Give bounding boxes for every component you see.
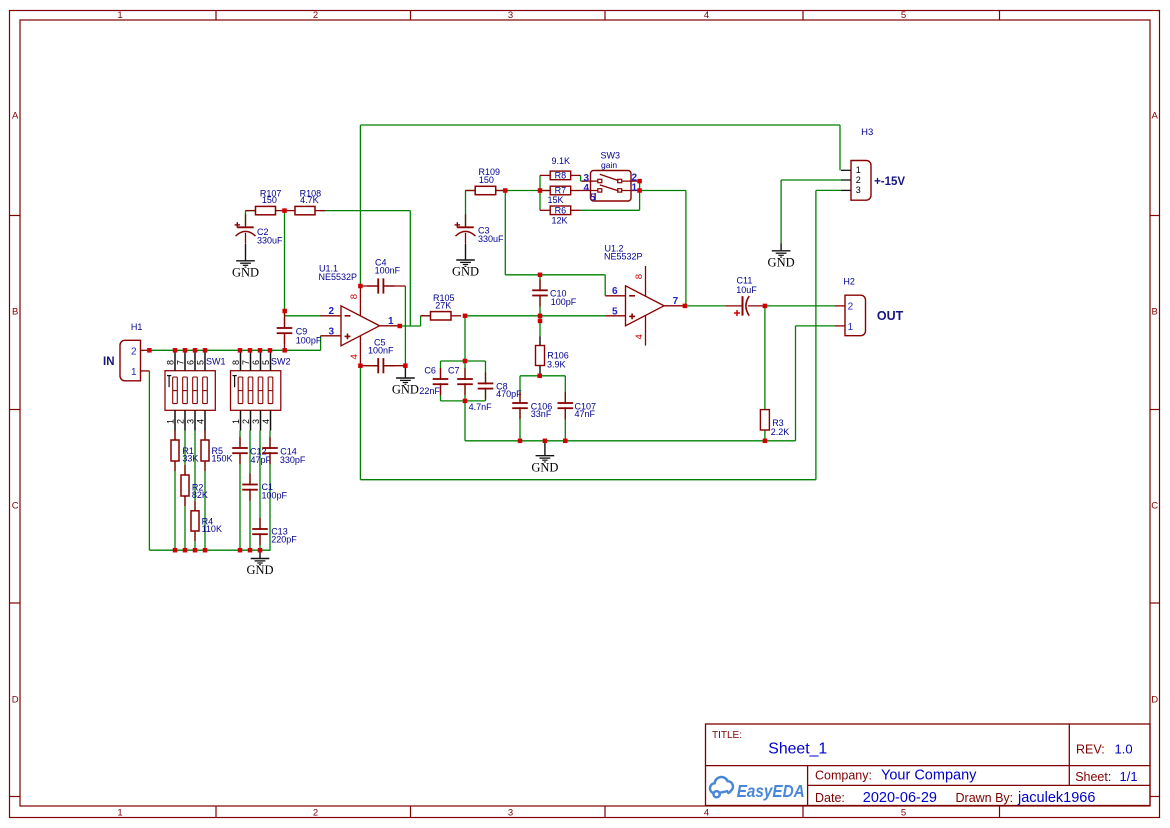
svg-text:SW2: SW2	[271, 356, 291, 366]
capacitor C10	[539, 279, 541, 290]
wire switch column x=250	[249, 431, 251, 551]
wire C3 branch	[465, 191, 467, 228]
junction node (175,350.3)	[173, 348, 178, 353]
wire C107 branch	[564, 376, 566, 441]
junction node (260,350.3)	[258, 348, 263, 353]
svg-text:REV:: REV:	[1076, 743, 1105, 757]
ground GND C2	[245, 244, 247, 261]
wire SW3 pin1 to U1.2 output	[640, 190, 686, 192]
capacitor C6	[440, 368, 442, 379]
svg-text:1: 1	[131, 367, 137, 378]
junction node (195,350.3)	[193, 348, 198, 353]
svg-text:5: 5	[590, 192, 596, 203]
svg-text:Drawn By:: Drawn By:	[956, 791, 1014, 805]
ground GND filter	[544, 441, 546, 456]
resistor R2	[184, 465, 186, 475]
svg-text:7: 7	[673, 296, 679, 307]
svg-text:100pF: 100pF	[262, 490, 288, 500]
svg-text:100nF: 100nF	[368, 346, 394, 356]
resistor R107	[246, 210, 256, 212]
wire -15V rail up to H3 pin3	[815, 190, 817, 479]
junction node (540,190.5)	[538, 188, 543, 193]
svg-text:2: 2	[313, 10, 318, 21]
wire gnd rail up to H2 pin1	[795, 326, 797, 441]
ground GND C3	[465, 244, 467, 260]
svg-text:150: 150	[479, 175, 494, 185]
junction node (284.5,210.6)	[282, 208, 287, 213]
svg-text:1: 1	[231, 419, 241, 424]
wire switch column x=175	[174, 431, 176, 551]
svg-text:GND: GND	[531, 460, 558, 474]
svg-text:4.7K: 4.7K	[300, 195, 319, 205]
resistor R6	[540, 209, 550, 211]
svg-text:150K: 150K	[212, 453, 233, 463]
wire SW3 pins 1+2 tie	[639, 181, 641, 210]
capacitor C107	[564, 392, 566, 403]
junction node (540,274.8)	[538, 273, 543, 278]
wire switch column x=240	[239, 431, 241, 551]
svg-text:C6: C6	[424, 366, 436, 376]
svg-text:82K: 82K	[192, 490, 208, 500]
svg-text:330pF: 330pF	[280, 455, 306, 465]
wire gnd rail	[465, 440, 796, 442]
svg-text:6: 6	[186, 360, 196, 365]
connector H1	[120, 340, 141, 380]
svg-text:100pF: 100pF	[296, 336, 322, 346]
svg-text:3: 3	[508, 807, 513, 818]
junction node (284.7,350.3)	[282, 348, 287, 353]
svg-text:Company:: Company:	[815, 769, 872, 783]
svg-text:1: 1	[856, 165, 861, 175]
wire U1.2 out to C11	[685, 305, 726, 307]
ground GND H3	[780, 244, 782, 251]
svg-text:12K: 12K	[552, 216, 568, 226]
svg-text:C: C	[1151, 501, 1158, 512]
EasyEDA logo	[710, 777, 733, 797]
junction node (250,550.2)	[248, 548, 253, 553]
svg-text:4.7nF: 4.7nF	[469, 402, 493, 412]
junction node (240,350.3)	[238, 348, 243, 353]
svg-text:B: B	[12, 307, 18, 318]
resistor R8	[540, 174, 550, 176]
wire R105 out to U1.2 pin5	[465, 315, 606, 317]
svg-text:1: 1	[631, 182, 637, 193]
svg-text:1: 1	[166, 419, 176, 424]
svg-text:EasyEDA: EasyEDA	[737, 781, 805, 801]
junction node (764.9,305.9)	[763, 304, 768, 309]
junction node (360.4,286)	[358, 284, 363, 289]
svg-text:H2: H2	[843, 276, 855, 286]
svg-text:NE5532P: NE5532P	[604, 252, 643, 262]
svg-text:B: B	[1152, 307, 1158, 318]
wire switch column x=260	[259, 431, 261, 551]
wire R6 to SW3 pin1	[581, 209, 640, 211]
title block grid	[706, 724, 1151, 806]
resistor R3	[764, 409, 766, 411]
junction node (639.6,181.1)	[637, 179, 642, 184]
wire C9 node to U1.1 pin2	[285, 315, 322, 317]
svg-text:H3: H3	[861, 127, 873, 138]
svg-text:47pF: 47pF	[251, 455, 272, 465]
svg-text:SW1: SW1	[206, 356, 226, 366]
capacitor C4	[360, 285, 378, 287]
junction node (539.7,375.8)	[537, 374, 542, 379]
junction node (195,550.2)	[193, 548, 198, 553]
resistor R1	[174, 430, 176, 440]
svg-text:jaculek1966: jaculek1966	[1017, 790, 1095, 806]
svg-text:Sheet:: Sheet:	[1075, 770, 1111, 784]
svg-text:R8: R8	[555, 171, 567, 181]
svg-text:7: 7	[176, 360, 186, 365]
svg-text:9.1K: 9.1K	[552, 156, 571, 166]
wire switch column x=205	[204, 431, 206, 551]
wire C6 branch	[440, 361, 442, 401]
wire H3 pin2 to GND	[781, 179, 841, 181]
svg-text:220pF: 220pF	[271, 535, 297, 545]
svg-text:1: 1	[848, 322, 854, 333]
capacitor C11	[725, 305, 742, 307]
capacitor C5	[360, 365, 378, 367]
junction node (405.4,365.7)	[403, 363, 408, 368]
wire R8/R7/R6 left bus	[539, 175, 541, 210]
svg-text:NE5532P: NE5532P	[319, 272, 358, 282]
wire switch column x=195	[194, 431, 196, 551]
wire R109 node down	[504, 191, 506, 275]
junction node (175,550.2)	[173, 548, 178, 553]
svg-text:2: 2	[176, 419, 186, 424]
junction node (540,320.9)	[538, 319, 543, 324]
op-amp U1.1	[341, 306, 380, 346]
svg-text:5: 5	[901, 10, 906, 21]
wire C7 branch	[464, 361, 466, 401]
junction node (205,350.3)	[203, 348, 208, 353]
svg-text:7: 7	[241, 360, 251, 365]
svg-text:4: 4	[583, 183, 589, 194]
svg-text:22nF: 22nF	[419, 386, 440, 396]
svg-text:100pF: 100pF	[551, 297, 577, 307]
svg-text:D: D	[12, 695, 19, 706]
wire H1 pin1 down	[148, 371, 150, 550]
svg-text:3: 3	[328, 326, 334, 337]
svg-text:2: 2	[856, 175, 861, 185]
svg-text:100nF: 100nF	[375, 266, 401, 276]
resistor R106	[539, 336, 541, 345]
svg-text:5: 5	[612, 306, 618, 317]
junction node (399.8,326)	[398, 324, 403, 329]
svg-text:GND: GND	[232, 265, 259, 279]
svg-text:3: 3	[508, 10, 513, 21]
capacitor C3	[465, 214, 467, 227]
svg-text:H1: H1	[131, 322, 143, 332]
op-amp U1.2	[626, 286, 665, 326]
junction node (639.6,190.5)	[637, 188, 642, 193]
junction node (240,550.2)	[238, 548, 243, 553]
wire R8 to SW3 pin3	[580, 175, 582, 181]
ground GND C5	[404, 366, 406, 378]
junction node (465,400.9)	[463, 399, 468, 404]
svg-text:2020-06-29: 2020-06-29	[863, 790, 937, 806]
svg-text:C: C	[12, 501, 19, 512]
capacitor C12	[239, 437, 241, 448]
svg-text:1.0: 1.0	[1115, 742, 1133, 757]
svg-text:D: D	[1151, 695, 1158, 706]
junction node (205,550.2)	[203, 548, 208, 553]
svg-text:3: 3	[251, 419, 261, 424]
svg-text:470pF: 470pF	[496, 389, 522, 399]
wire +15V top rail	[360, 124, 840, 126]
wire R3 bottom to gnd rail	[764, 430, 766, 441]
resistor R5	[204, 430, 206, 440]
wire R106 bottom bus	[520, 375, 565, 377]
capacitor C2	[245, 214, 247, 227]
wire C10/R106 column	[539, 275, 541, 336]
junction node (465,361)	[463, 359, 468, 364]
svg-text:2: 2	[328, 306, 334, 317]
svg-text:150: 150	[262, 195, 277, 205]
wire U1.1 output to R105	[400, 325, 421, 327]
svg-text:+-15V: +-15V	[874, 176, 905, 188]
wire R107/R108 junction down to C9	[284, 211, 286, 316]
connector H2	[845, 295, 866, 335]
svg-text:4: 4	[349, 354, 360, 359]
svg-text:A: A	[12, 111, 19, 122]
svg-text:6: 6	[612, 286, 618, 297]
wire R107 left	[246, 210, 256, 212]
resistor R4	[194, 501, 196, 511]
junction node (250,350.3)	[248, 348, 253, 353]
svg-text:4: 4	[634, 334, 645, 339]
svg-text:IN: IN	[103, 356, 115, 368]
junction node (360.4,365.7)	[358, 363, 363, 368]
svg-text:C7: C7	[448, 366, 460, 376]
svg-text:1: 1	[388, 316, 394, 327]
switch SW1	[165, 371, 215, 411]
svg-text:8: 8	[634, 274, 645, 279]
svg-text:5: 5	[901, 807, 906, 818]
junction node (520,440.8)	[518, 439, 523, 444]
svg-text:GND: GND	[392, 383, 419, 397]
wire switch column x=185	[184, 431, 186, 551]
svg-text:Date:: Date:	[815, 791, 845, 805]
svg-text:2: 2	[313, 807, 318, 818]
capacitor C7	[464, 368, 466, 379]
svg-text:OUT: OUT	[877, 309, 904, 323]
svg-text:27K: 27K	[435, 301, 451, 311]
connector H3	[851, 161, 871, 201]
wire C8 branch	[485, 361, 487, 401]
svg-text:1: 1	[117, 807, 122, 818]
capacitor C1	[249, 474, 251, 485]
svg-text:1: 1	[117, 10, 122, 21]
svg-text:3.9K: 3.9K	[547, 359, 566, 369]
svg-text:10uF: 10uF	[736, 285, 757, 295]
junction node (565.3,440.8)	[563, 439, 568, 444]
svg-text:5: 5	[261, 360, 271, 365]
svg-text:Sheet_1: Sheet_1	[768, 741, 827, 758]
svg-text:3: 3	[186, 419, 196, 424]
wire C4 right to C5 right (to GND)	[404, 286, 406, 366]
junction node (149.4,350.3)	[147, 348, 152, 353]
svg-text:gain: gain	[601, 160, 617, 170]
svg-text:3: 3	[856, 185, 861, 195]
svg-text:330uF: 330uF	[257, 236, 283, 246]
switch SW3	[591, 171, 632, 202]
wire filter bottom to gnd rail	[464, 401, 466, 441]
svg-text:TITLE:: TITLE:	[712, 730, 742, 741]
svg-text:4: 4	[196, 419, 206, 424]
svg-text:6: 6	[251, 360, 261, 365]
svg-text:2.2K: 2.2K	[771, 427, 790, 437]
capacitor C14	[269, 437, 271, 448]
svg-text:33K: 33K	[182, 453, 198, 463]
svg-text:33nF: 33nF	[531, 409, 552, 419]
wire C6/C7/C8 bottom bus	[441, 400, 486, 402]
wire C6/C7/C8 top bus	[441, 360, 486, 362]
svg-text:47nF: 47nF	[575, 409, 596, 419]
junction node (465,315.8)	[463, 314, 468, 319]
wire R109 out bus	[466, 190, 551, 192]
resistor R7	[540, 190, 550, 192]
wire node to filter C6/C7/C8	[464, 316, 466, 361]
junction node (185,550.2)	[183, 548, 188, 553]
svg-text:A: A	[1152, 111, 1159, 122]
svg-text:1/1: 1/1	[1120, 769, 1138, 784]
junction node (260,550.2)	[258, 548, 263, 553]
wire R108 output to output node	[320, 210, 410, 212]
junction node (764.9,440.8)	[763, 439, 768, 444]
capacitor C106	[519, 392, 521, 403]
svg-text:15K: 15K	[548, 195, 564, 205]
junction node (544.9,440.8)	[543, 439, 548, 444]
svg-text:2: 2	[848, 302, 854, 313]
svg-text:2: 2	[131, 346, 137, 357]
junction node (540,315.8)	[538, 314, 543, 319]
junction node (284.7,311)	[282, 309, 287, 314]
svg-text:4: 4	[704, 807, 709, 818]
svg-text:110K: 110K	[202, 524, 222, 534]
junction node (185,350.3)	[183, 348, 188, 353]
svg-text:8: 8	[166, 360, 176, 365]
svg-text:5: 5	[196, 360, 206, 365]
wire switch bottom rail	[149, 549, 270, 551]
svg-text:GND: GND	[246, 563, 273, 577]
capacitor C13	[259, 518, 261, 529]
resistor R109	[465, 190, 475, 192]
capacitor C9	[284, 311, 286, 328]
svg-text:GND: GND	[768, 255, 795, 269]
wire U1.1 pin3 to switch top rail	[320, 336, 322, 351]
svg-text:GND: GND	[452, 265, 479, 279]
wire switch column x=270	[269, 431, 271, 551]
capacitor C8	[485, 372, 487, 383]
wire C11 to H2 pin2	[765, 305, 835, 307]
svg-text:Your Company: Your Company	[881, 768, 977, 784]
wire switch top rail	[149, 349, 320, 351]
svg-text:8: 8	[231, 360, 241, 365]
svg-text:2: 2	[241, 419, 251, 424]
resistor R105	[421, 315, 431, 317]
svg-text:R6: R6	[555, 206, 567, 216]
wire out node down to R3	[764, 306, 766, 410]
ground GND switches	[259, 550, 261, 558]
svg-text:8: 8	[349, 294, 360, 299]
svg-text:4: 4	[261, 419, 271, 424]
junction node (505.3,190.5)	[503, 188, 508, 193]
wire C106 branch	[519, 376, 521, 441]
svg-text:330uF: 330uF	[478, 234, 504, 244]
wire +15V rail drop to U1.1 pin8/C4	[359, 125, 361, 286]
wire -15V bottom rail	[359, 366, 361, 480]
resistor R108	[285, 210, 295, 212]
svg-text:4: 4	[704, 10, 709, 21]
junction node (270,350.3)	[268, 348, 273, 353]
switch SW2	[231, 371, 281, 411]
junction node (684.9,305.9)	[683, 304, 688, 309]
